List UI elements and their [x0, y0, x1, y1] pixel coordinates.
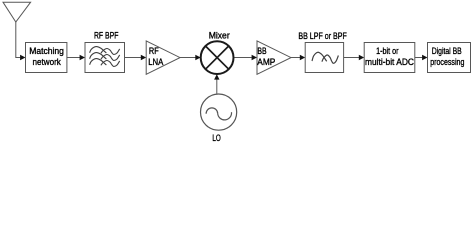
svg-text:Mixer: Mixer [209, 31, 230, 41]
wire ADC to digital BB [415, 57, 423, 59]
op-amp triangle: BB AMP [257, 41, 291, 74]
block: Matching network [26, 43, 67, 73]
wire RF BPF to RF LNA [125, 57, 142, 59]
block: BB LPF or BPF [305, 43, 343, 73]
block: RF BPF [85, 43, 125, 73]
svg-text:processing: processing [430, 57, 464, 67]
block: Digital BB processing [428, 43, 471, 73]
filter wave 2 [90, 53, 120, 61]
wire LO to mixer [216, 80, 218, 94]
wire BB LPF to ADC [344, 57, 359, 59]
wire matching network to RF BPF [67, 57, 80, 59]
wire BB AMP to BB LPF [291, 57, 300, 59]
filter wave 3 [90, 59, 120, 67]
svg-text:RF BPF: RF BPF [94, 31, 119, 41]
svg-text:BB: BB [257, 46, 266, 56]
block: 1-bit or multi-bit ADC [364, 43, 415, 73]
wire mixer to BB AMP [235, 57, 252, 59]
mixer circle [201, 41, 234, 74]
svg-text:multi-bit ADC: multi-bit ADC [365, 57, 414, 67]
LO sine [206, 108, 231, 120]
svg-text:BB LPF or BPF: BB LPF or BPF [298, 31, 347, 41]
wire RF LNA to mixer [180, 57, 196, 59]
sine symbol in BB LPF [312, 52, 338, 63]
svg-text:LO: LO [212, 133, 220, 143]
antenna [3, 2, 31, 57]
svg-text:Digital BB: Digital BB [432, 46, 462, 56]
wire antenna to matching network arrowhead [20, 55, 25, 60]
svg-text:AMP: AMP [257, 57, 275, 67]
op-amp triangle: RF LNA [146, 41, 180, 74]
svg-text:network: network [33, 57, 62, 67]
svg-text:LNA: LNA [148, 57, 164, 67]
svg-text:1-bit or: 1-bit or [376, 46, 398, 56]
LO oscillator circle [201, 94, 237, 130]
mixer X [206, 46, 229, 69]
filter wave 1 [90, 47, 120, 55]
svg-text:RF: RF [149, 46, 159, 56]
svg-text:Matching: Matching [29, 46, 64, 56]
